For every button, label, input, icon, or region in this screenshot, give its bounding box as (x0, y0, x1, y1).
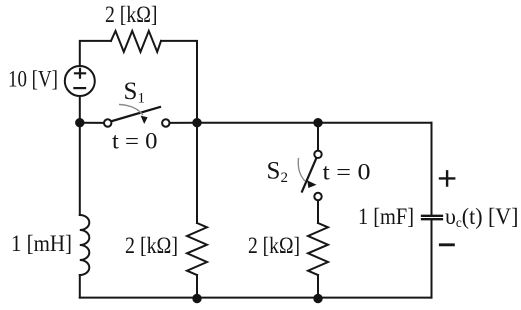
svg-text:S: S (267, 158, 281, 185)
bottom rail wire (80, 297, 432, 299)
switch S1 right contact circle (162, 119, 169, 126)
switch S1 blade (112, 107, 161, 121)
switch S1 actuation arc (120, 105, 143, 115)
switch S1 arrowhead (141, 116, 148, 124)
node B junction dot (192, 118, 201, 127)
switch S2 blade (302, 159, 316, 192)
svg-text:2 [kΩ]: 2 [kΩ] (105, 2, 158, 27)
svg-text:10 [V]: 10 [V] (8, 67, 58, 92)
wire node A down to inductor L1 (79, 123, 81, 215)
inductor L1 1 mH (80, 215, 90, 275)
capacitor C1 top plate (422, 215, 442, 217)
svg-text:2 [kΩ]: 2 [kΩ] (248, 233, 300, 258)
node C junction dot (313, 118, 322, 127)
wire capacitor bottom plate to bottom-right corner (431, 220, 433, 297)
wire R2 bottom to bottom rail node D (196, 275, 198, 298)
node D junction dot (192, 294, 201, 303)
capacitor C1 bottom plate (422, 218, 442, 220)
wire from R1 right end down to node B (161, 41, 197, 123)
switch S1 left contact circle (104, 119, 111, 126)
wire inductor bottom to bottom-left corner (79, 275, 81, 298)
resistor R2 2 kOhm vertical (187, 223, 207, 275)
wire node B down to resistor R2 (196, 123, 198, 223)
wire node A to switch S1 left contact (80, 122, 104, 124)
svg-text:t = 0: t = 0 (323, 160, 371, 185)
svg-text:2: 2 (281, 170, 289, 186)
node A junction dot (75, 118, 84, 127)
node E junction dot (313, 294, 322, 303)
svg-text:1 [mF]: 1 [mF] (358, 204, 414, 229)
switch S2 bottom contact circle (314, 193, 321, 200)
svg-text:2 [kΩ]: 2 [kΩ] (125, 233, 178, 258)
voltage source minus sign (74, 87, 85, 89)
wire source bottom to node A (79, 96, 81, 123)
svg-text:1: 1 (138, 91, 146, 107)
switch S2 actuation arc (298, 159, 304, 181)
resistor R1 2 kOhm horizontal (111, 31, 161, 52)
voltage source plus sign (75, 69, 85, 78)
capacitor polarity plus sign (440, 171, 454, 185)
svg-text:S: S (124, 78, 138, 105)
wire middle rail node B to node C to right rail corner (197, 122, 432, 124)
voltage source V1 10 V circle (65, 66, 95, 96)
wire R3 bottom to bottom rail node E (317, 275, 319, 298)
wire node C down to switch S2 top contact (317, 123, 319, 151)
svg-text:1 [mH]: 1 [mH] (11, 231, 72, 256)
svg-text:t = 0: t = 0 (112, 129, 158, 154)
capacitor polarity minus sign (440, 243, 453, 246)
switch S2 arrowhead (307, 180, 316, 188)
wire S1 right contact to node B (170, 122, 197, 124)
resistor R3 2 kOhm vertical (308, 223, 328, 275)
wire right rail down to capacitor C1 top plate (431, 123, 433, 215)
wire S2 bottom contact to resistor R3 (317, 201, 319, 224)
switch S2 top contact circle (314, 151, 321, 158)
wire top-left horizontal from left rail to resistor R1 (80, 41, 111, 66)
